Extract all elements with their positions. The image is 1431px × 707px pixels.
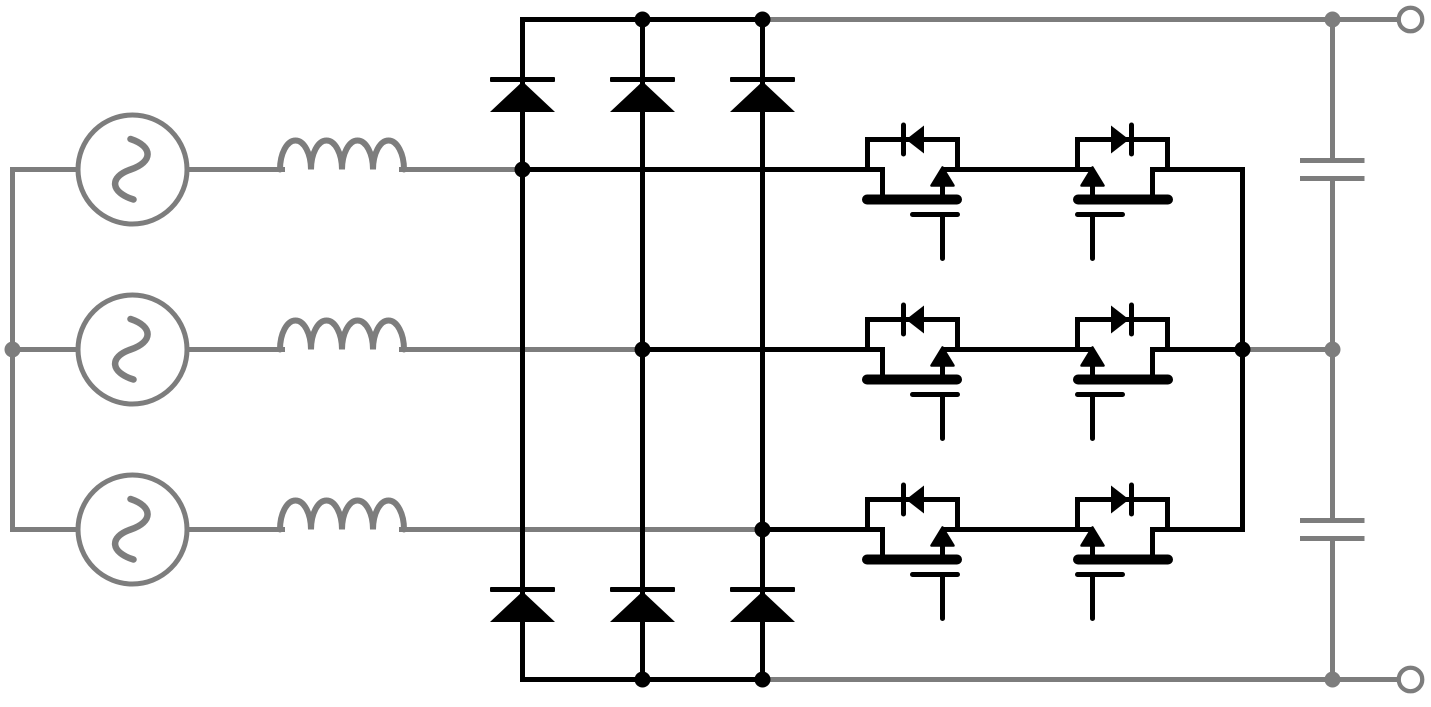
inductor L1 [280,141,404,170]
AC voltage source V2 [78,295,187,404]
wire midpoint link (node M) [1243,347,1333,352]
wire inductor L3 to rectifier leg 3 [399,527,763,532]
diode D4 (lower, leg 1) [490,587,555,622]
terminal DC+ output [1399,8,1423,32]
wire bottom rail black segment [520,677,765,682]
wire source V3 to inductor L3 [186,527,285,532]
wire right bus vertical [1240,167,1245,532]
wire inductor L2 to rectifier leg 2 [399,347,643,352]
diode D5 (lower, leg 2) [610,587,675,622]
node right bus / midpoint branch [1235,342,1251,358]
capacitor C2 [1300,521,1365,539]
wire left vertical bus [10,167,15,532]
wire left bus to source V1 [10,167,79,172]
node phase B / leg 2 [635,342,651,358]
wire rectifier leg 3 to MOSFET Q5 drain [763,527,886,532]
wire left bus to source V3 [10,527,79,532]
wire MOSFET Q4 drain to right bus [1150,347,1245,352]
node capacitor bus / bottom rail [1325,672,1341,688]
node bottom rail / leg 2 [635,672,651,688]
node phase C / leg 3 [755,522,771,538]
wire common source Q3 to Q4 [943,347,1093,352]
node phase A / leg 1 [515,162,531,178]
node capacitor bus / top rail [1325,12,1341,28]
wire inductor L1 to rectifier leg 1 [399,167,523,172]
node top rail / leg 2 [635,12,651,28]
wire capacitor C1 to midpoint M [1330,179,1335,350]
node top rail / leg 3 [755,12,771,28]
inductor L2 [280,321,404,350]
node left bus / phase B junction [5,342,21,358]
wire rectifier leg 1 [520,17,525,682]
wire MOSFET Q2 drain to right bus [1150,167,1245,172]
wire rectifier leg 2 [640,17,645,682]
wire rectifier leg 3 [760,17,765,682]
AC voltage source V1 [78,115,187,224]
wire source V1 to inductor L1 [186,167,285,172]
MOSFET Q2 with body diode [1078,125,1169,259]
wire capacitor C2 to bottom rail [1330,539,1335,680]
inductor L3 [280,501,404,530]
MOSFET Q6 with body diode [1078,485,1169,619]
wire top rail black segment [520,17,765,22]
wire MOSFET Q6 drain to right bus [1150,527,1245,532]
wire common source Q1 to Q2 [943,167,1093,172]
node capacitor midpoint M [1325,342,1341,358]
AC voltage source V3 [78,475,187,584]
wire rectifier leg 1 to MOSFET Q1 drain [523,167,886,172]
terminal DC- output [1399,668,1423,692]
diode D2 (upper, leg 2) [610,77,675,112]
diode D1 (upper, leg 1) [490,77,555,112]
MOSFET Q3 with body diode [867,305,958,439]
node bottom rail / leg 3 [755,672,771,688]
diode D6 (lower, leg 3) [730,587,795,622]
wire top rail gray segment [763,17,1398,22]
wire rectifier leg 2 to MOSFET Q3 drain [643,347,886,352]
wire left bus to source V2 [10,347,79,352]
MOSFET Q5 with body diode [867,485,958,619]
wire midpoint M to capacitor C2 [1330,350,1335,521]
capacitor C1 [1300,161,1365,179]
wire common source Q5 to Q6 [943,527,1093,532]
wire bottom rail gray segment [763,677,1398,682]
MOSFET Q1 with body diode [867,125,958,259]
wire source V2 to inductor L2 [186,347,285,352]
wire capacitor bus top rail to C1 [1330,20,1335,161]
MOSFET Q4 with body diode [1078,305,1169,439]
diode D3 (upper, leg 3) [730,77,795,112]
